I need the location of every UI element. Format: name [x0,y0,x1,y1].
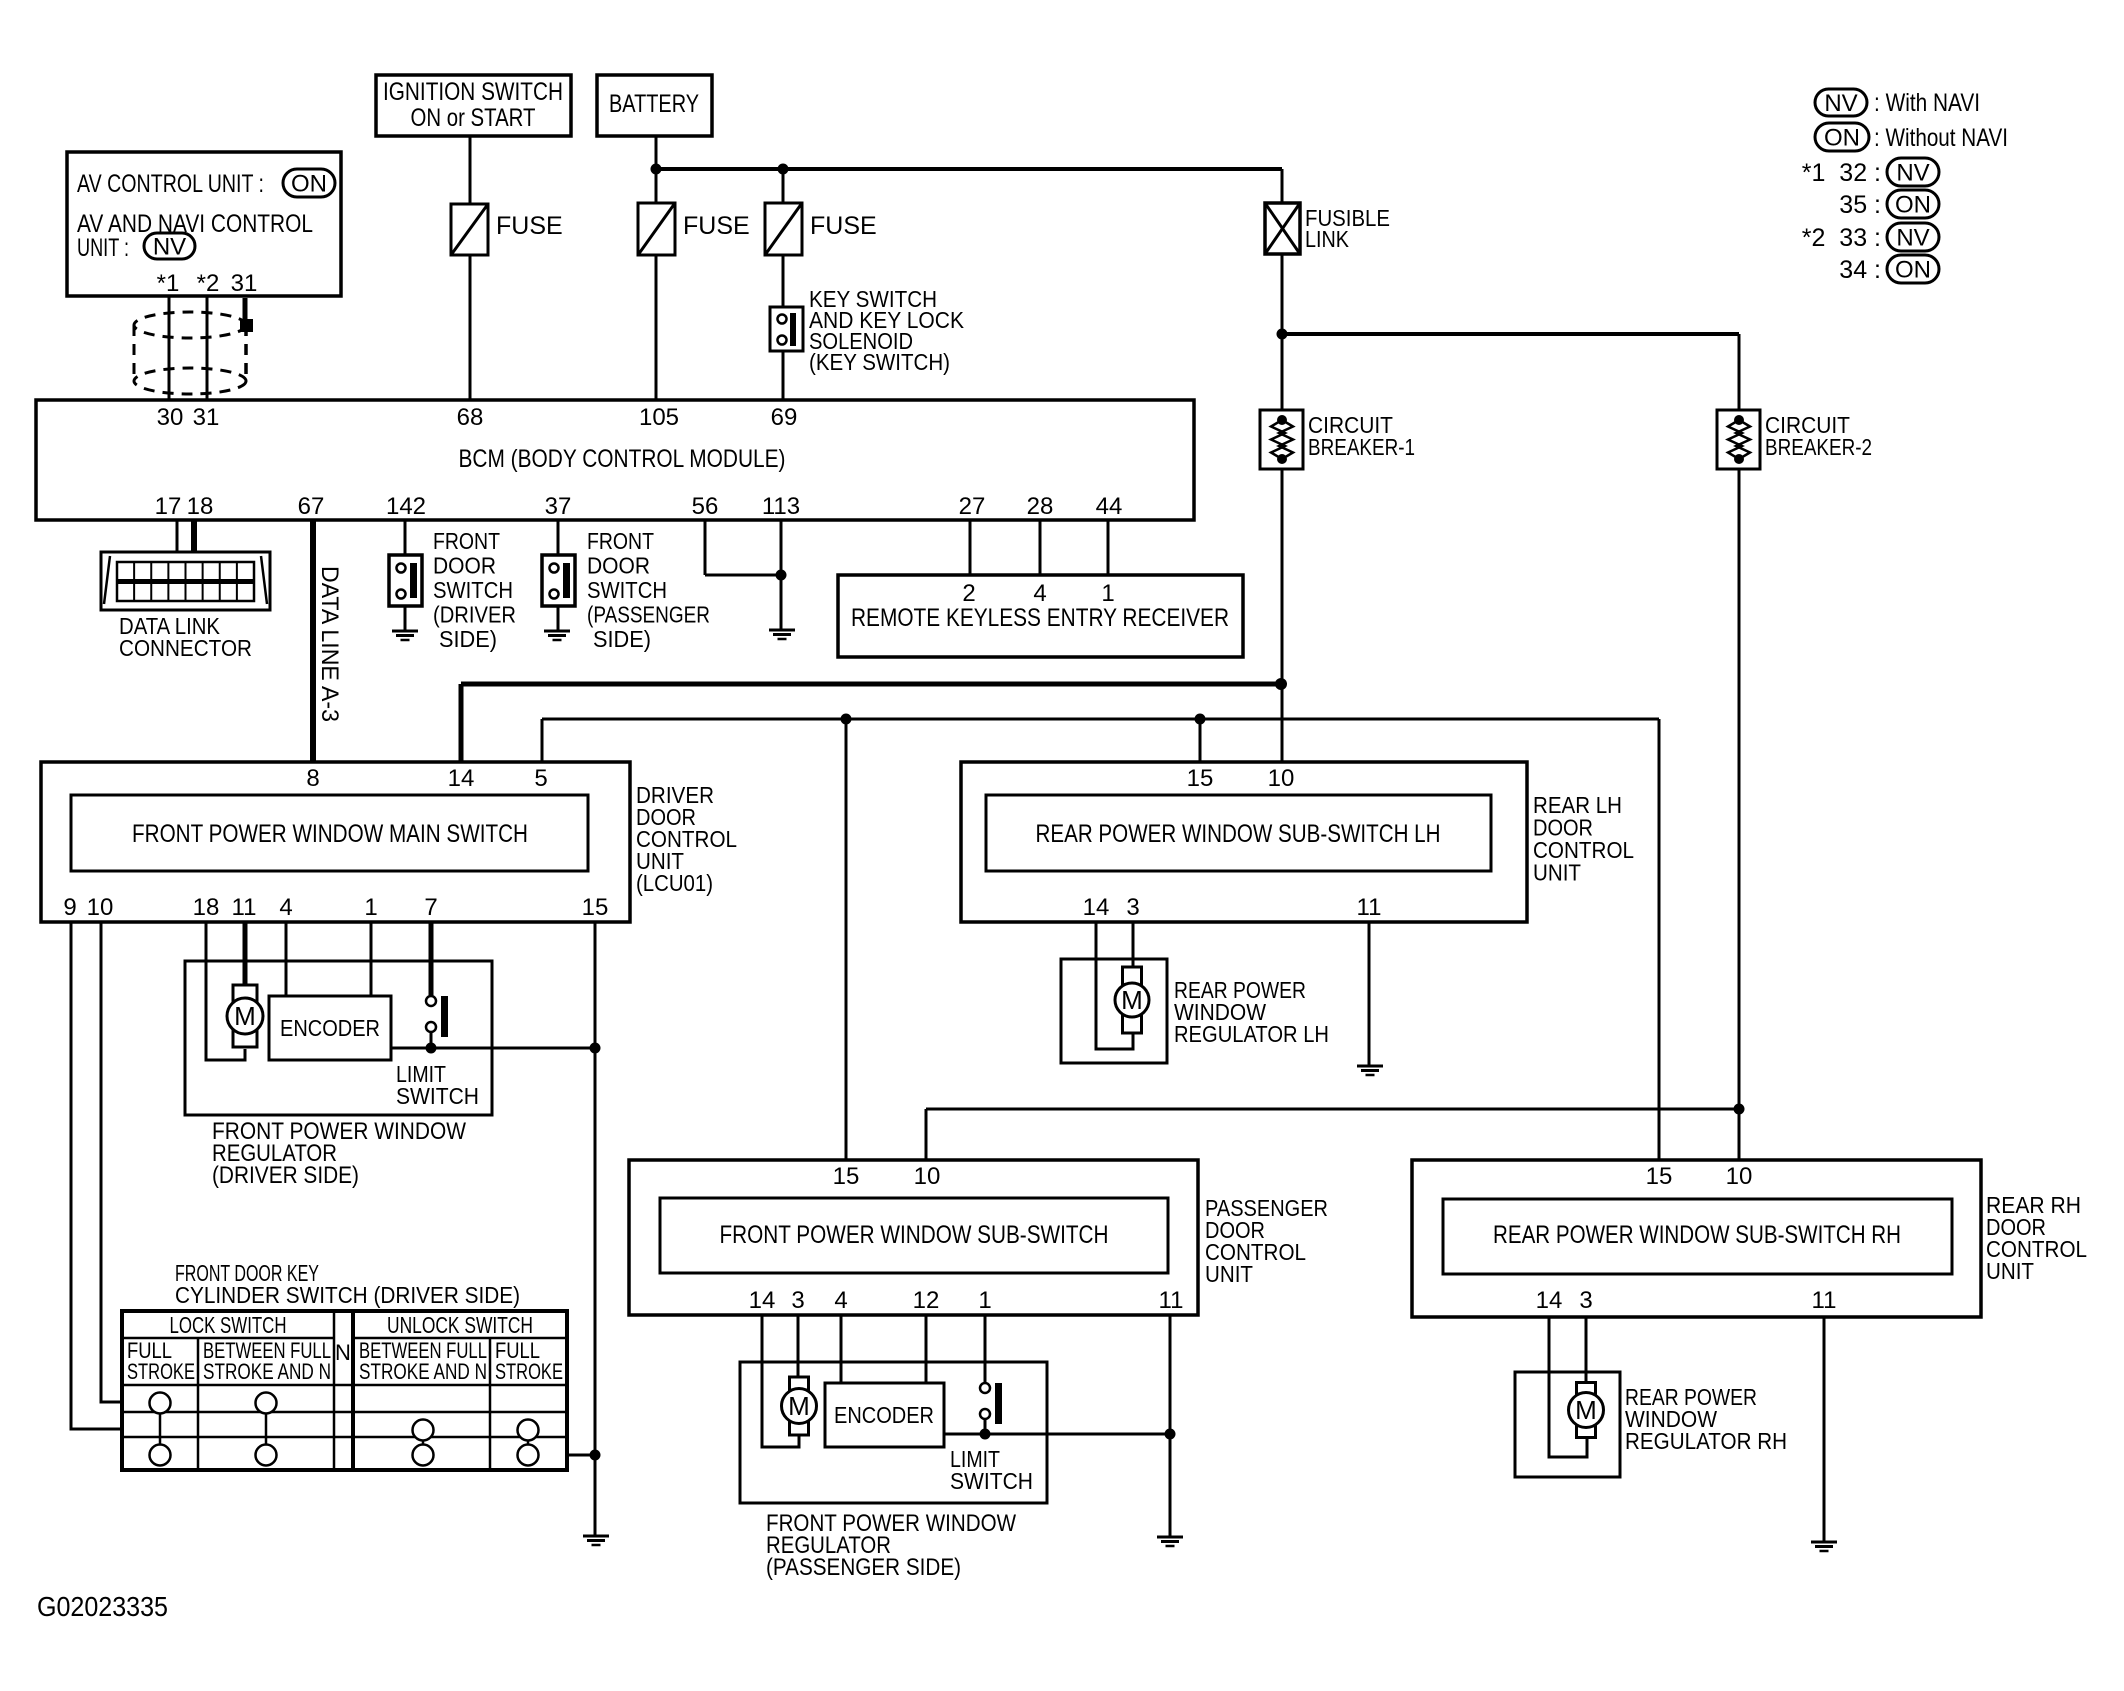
svg-text:ON: ON [1824,125,1860,152]
svg-text:3: 3 [1579,1287,1592,1314]
svg-text:SIDE): SIDE) [439,626,497,652]
svg-text:14: 14 [448,765,475,792]
svg-text:CONNECTOR: CONNECTOR [119,635,252,661]
svg-text:REGULATOR LH: REGULATOR LH [1174,1021,1329,1047]
svg-text:ENCODER: ENCODER [834,1402,934,1428]
svg-text:1: 1 [978,1287,991,1314]
svg-text:4: 4 [279,894,292,921]
svg-text:SIDE): SIDE) [593,626,651,652]
svg-text:BREAKER-1: BREAKER-1 [1308,434,1415,460]
svg-text:105: 105 [639,404,679,431]
svg-text:UNIT: UNIT [1986,1258,2034,1284]
svg-text:STROKE: STROKE [127,1359,195,1384]
svg-text:44: 44 [1096,493,1123,520]
svg-text:N: N [335,1340,351,1365]
svg-text:UNIT :: UNIT : [77,234,129,262]
svg-text:FUSE: FUSE [683,212,750,240]
svg-text:M: M [788,1391,810,1421]
svg-text:FRONT POWER WINDOW SUB-SWITCH: FRONT POWER WINDOW SUB-SWITCH [720,1221,1109,1249]
svg-text:G02023335: G02023335 [37,1591,168,1622]
svg-text:2: 2 [962,580,975,607]
svg-text:30: 30 [157,404,184,431]
svg-text:*2: *2 [197,270,220,297]
svg-text:3: 3 [791,1287,804,1314]
svg-text:M: M [1121,985,1143,1015]
svg-text:NV: NV [1896,160,1929,187]
svg-text:69: 69 [771,404,798,431]
svg-text:18: 18 [187,493,214,520]
svg-text:(LCU01): (LCU01) [636,870,713,896]
svg-text:LINK: LINK [1305,226,1350,252]
svg-text:REGULATOR RH: REGULATOR RH [1625,1428,1787,1454]
svg-text:STROKE: STROKE [495,1359,563,1384]
svg-text:10: 10 [1726,1163,1753,1190]
svg-text:*2 33 :: *2 33 : [1802,224,1881,252]
svg-text:10: 10 [914,1163,941,1190]
svg-text:FRONT: FRONT [433,528,500,554]
svg-text:11: 11 [1357,894,1382,921]
svg-text:BATTERY: BATTERY [609,90,699,118]
svg-text:DATA LINE A-3: DATA LINE A-3 [316,566,343,722]
svg-text:34 :: 34 : [1839,256,1881,284]
svg-text:3: 3 [1126,894,1139,921]
svg-text:7: 7 [424,894,437,921]
svg-text:113: 113 [762,493,800,520]
svg-text:NV: NV [1896,225,1929,252]
svg-text:11: 11 [232,894,257,921]
svg-text:ENCODER: ENCODER [280,1015,380,1041]
svg-text:CYLINDER SWITCH (DRIVER SIDE): CYLINDER SWITCH (DRIVER SIDE) [175,1282,520,1308]
svg-text:*1 32 :: *1 32 : [1802,159,1881,187]
svg-text:ON: ON [1895,192,1931,219]
svg-text:M: M [1575,1395,1597,1425]
svg-text:ON: ON [291,171,327,198]
svg-text:SWITCH: SWITCH [433,577,513,603]
svg-text:SWITCH: SWITCH [396,1083,479,1109]
svg-text:(DRIVER: (DRIVER [433,602,516,628]
svg-text:9: 9 [63,894,76,921]
svg-text:(KEY SWITCH): (KEY SWITCH) [809,349,950,375]
svg-text:28: 28 [1027,493,1054,520]
svg-text:REAR POWER WINDOW SUB-SWITCH R: REAR POWER WINDOW SUB-SWITCH RH [1493,1221,1901,1249]
svg-text:REAR POWER WINDOW SUB-SWITCH L: REAR POWER WINDOW SUB-SWITCH LH [1036,820,1441,848]
svg-text:SWITCH: SWITCH [950,1468,1033,1494]
svg-text:10: 10 [1268,765,1295,792]
svg-text:15: 15 [833,1163,860,1190]
svg-text:FRONT: FRONT [587,528,654,554]
svg-text:*1: *1 [157,270,180,297]
svg-text:FUSE: FUSE [810,212,877,240]
svg-text:REMOTE KEYLESS ENTRY RECEIVER: REMOTE KEYLESS ENTRY RECEIVER [851,604,1229,632]
svg-text:NV: NV [153,234,186,261]
svg-text:UNIT: UNIT [1533,860,1581,886]
svg-text:15: 15 [1646,1163,1673,1190]
svg-text:STROKE AND N: STROKE AND N [203,1359,331,1384]
svg-text:: With NAVI: : With NAVI [1874,89,1980,117]
svg-text:(PASSENGER SIDE): (PASSENGER SIDE) [766,1554,961,1581]
svg-text:17: 17 [155,493,182,520]
svg-text:DOOR: DOOR [587,553,650,579]
svg-text:67: 67 [298,493,325,520]
svg-text:56: 56 [692,493,719,520]
svg-text:AV CONTROL UNIT :: AV CONTROL UNIT : [77,170,264,198]
svg-text:STROKE AND N: STROKE AND N [359,1359,487,1384]
svg-text:4: 4 [1033,580,1046,607]
svg-text:ON or START: ON or START [411,104,536,132]
svg-text:FUSE: FUSE [496,212,563,240]
svg-text:(DRIVER SIDE): (DRIVER SIDE) [212,1162,359,1189]
svg-text:37: 37 [545,493,572,520]
svg-text:FRONT POWER WINDOW MAIN SWITCH: FRONT POWER WINDOW MAIN SWITCH [132,820,528,848]
svg-text:: Without NAVI: : Without NAVI [1874,124,2008,152]
svg-text:15: 15 [582,894,609,921]
svg-text:12: 12 [913,1287,940,1314]
svg-text:31: 31 [193,404,220,431]
svg-text:27: 27 [959,493,986,520]
svg-text:5: 5 [534,765,547,792]
svg-text:ON: ON [1895,257,1931,284]
svg-text:4: 4 [834,1287,847,1314]
svg-text:SWITCH: SWITCH [587,577,667,603]
svg-text:LOCK SWITCH: LOCK SWITCH [170,1312,287,1338]
svg-text:11: 11 [1812,1287,1837,1314]
svg-text:NV: NV [1824,90,1857,117]
svg-text:142: 142 [386,493,426,520]
svg-text:14: 14 [1083,894,1110,921]
svg-text:14: 14 [1536,1287,1563,1314]
svg-text:UNIT: UNIT [1205,1261,1253,1287]
svg-text:31: 31 [231,270,258,297]
svg-text:DOOR: DOOR [433,553,496,579]
svg-text:IGNITION SWITCH: IGNITION SWITCH [383,78,563,106]
svg-text:14: 14 [749,1287,776,1314]
svg-text:8: 8 [306,765,319,792]
svg-text:BCM (BODY CONTROL MODULE): BCM (BODY CONTROL MODULE) [459,445,786,473]
svg-text:15: 15 [1187,765,1214,792]
svg-text:1: 1 [364,894,377,921]
svg-text:BREAKER-2: BREAKER-2 [1765,434,1872,460]
svg-text:10: 10 [87,894,114,921]
svg-text:18: 18 [193,894,220,921]
svg-text:1: 1 [1101,580,1114,607]
svg-text:35 :: 35 : [1839,191,1881,219]
svg-text:(PASSENGER: (PASSENGER [587,602,710,628]
svg-text:M: M [234,1001,256,1031]
svg-text:11: 11 [1159,1287,1184,1314]
svg-text:UNLOCK SWITCH: UNLOCK SWITCH [387,1312,533,1338]
svg-text:68: 68 [457,404,484,431]
